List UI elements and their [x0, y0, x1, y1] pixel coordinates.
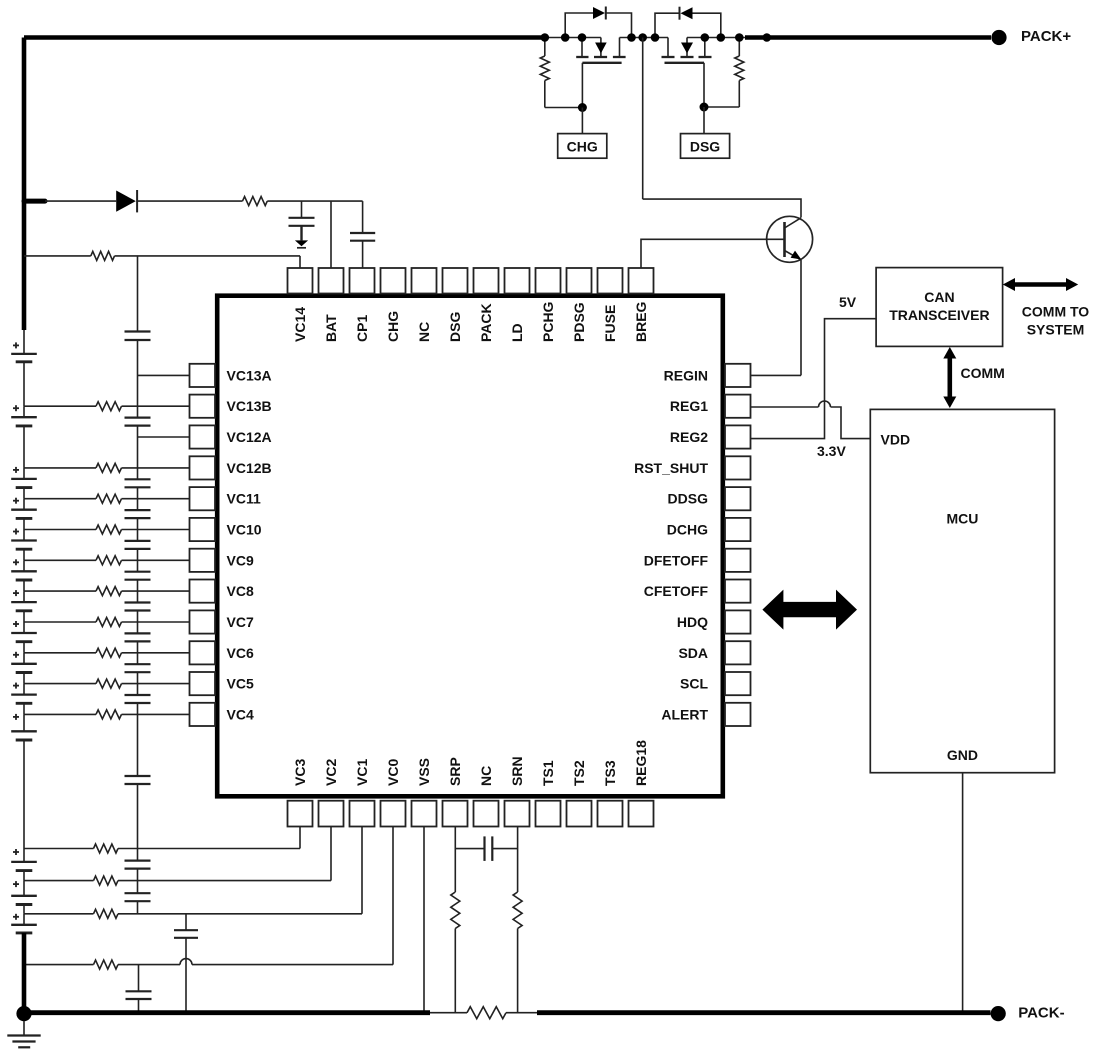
svg-text:MCU: MCU [946, 511, 978, 527]
svg-text:VC8: VC8 [227, 583, 254, 599]
svg-text:HDQ: HDQ [677, 614, 708, 630]
svg-text:ALERT: ALERT [661, 706, 708, 722]
svg-text:DSG: DSG [690, 139, 720, 155]
svg-text:DDSG: DDSG [668, 491, 709, 507]
svg-text:PDSG: PDSG [571, 302, 587, 342]
svg-text:REG2: REG2 [670, 429, 708, 445]
svg-text:TRANSCEIVER: TRANSCEIVER [889, 307, 989, 323]
svg-text:VC7: VC7 [227, 614, 254, 630]
svg-text:LD: LD [509, 323, 525, 342]
svg-text:GND: GND [947, 747, 978, 763]
svg-text:PACK-: PACK- [1018, 1005, 1064, 1022]
svg-text:NC: NC [478, 766, 494, 786]
svg-text:BREG: BREG [633, 301, 649, 342]
svg-text:SDA: SDA [678, 645, 708, 661]
svg-text:VC11: VC11 [227, 491, 261, 507]
svg-text:FUSE: FUSE [602, 305, 618, 342]
svg-text:VC6: VC6 [227, 645, 254, 661]
svg-text:VC9: VC9 [227, 552, 254, 568]
svg-text:3.3V: 3.3V [817, 443, 846, 459]
svg-text:REG1: REG1 [670, 398, 708, 414]
svg-text:CP1: CP1 [354, 315, 370, 342]
svg-text:TS1: TS1 [540, 760, 556, 786]
svg-text:BAT: BAT [323, 314, 339, 342]
svg-text:VC13A: VC13A [227, 367, 272, 383]
svg-text:SRP: SRP [447, 757, 463, 786]
svg-text:CAN: CAN [924, 289, 954, 305]
svg-text:COMM: COMM [961, 365, 1005, 381]
svg-text:VC13B: VC13B [227, 398, 272, 414]
svg-text:COMM TO: COMM TO [1022, 304, 1090, 320]
svg-text:VDD: VDD [881, 432, 911, 448]
svg-text:VC4: VC4 [227, 706, 254, 722]
svg-text:PACK: PACK [478, 303, 494, 342]
svg-text:TS3: TS3 [602, 760, 618, 786]
svg-text:VC3: VC3 [292, 759, 308, 786]
svg-text:VC1: VC1 [354, 759, 370, 786]
svg-text:CHG: CHG [385, 311, 401, 342]
svg-text:PACK+: PACK+ [1021, 28, 1071, 45]
svg-text:VC12B: VC12B [227, 460, 272, 476]
svg-text:VC14: VC14 [292, 307, 308, 342]
svg-text:VSS: VSS [416, 758, 432, 786]
svg-text:REG18: REG18 [633, 740, 649, 786]
svg-text:CFETOFF: CFETOFF [644, 583, 709, 599]
svg-text:VC10: VC10 [227, 522, 262, 538]
svg-text:VC0: VC0 [385, 759, 401, 786]
svg-text:DSG: DSG [447, 312, 463, 342]
svg-text:PCHG: PCHG [540, 301, 556, 342]
svg-text:RST_SHUT: RST_SHUT [634, 460, 708, 476]
svg-text:5V: 5V [839, 294, 857, 310]
svg-text:SRN: SRN [509, 756, 525, 786]
svg-text:SCL: SCL [680, 676, 708, 692]
svg-text:TS2: TS2 [571, 760, 587, 786]
svg-text:VC2: VC2 [323, 759, 339, 786]
svg-text:NC: NC [416, 322, 432, 342]
svg-text:VC5: VC5 [227, 676, 254, 692]
svg-text:DFETOFF: DFETOFF [644, 552, 709, 568]
svg-text:CHG: CHG [567, 139, 598, 155]
svg-text:SYSTEM: SYSTEM [1027, 322, 1085, 338]
svg-text:VC12A: VC12A [227, 429, 272, 445]
svg-text:DCHG: DCHG [667, 522, 708, 538]
svg-text:REGIN: REGIN [664, 367, 708, 383]
